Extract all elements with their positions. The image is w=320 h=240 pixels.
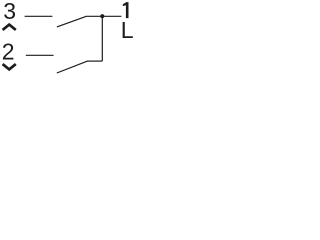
wire common bottom [87, 60, 102, 62]
wire common top to terminal 1 [86, 15, 122, 17]
wire terminal 3 [25, 15, 53, 17]
svg-text:3: 3 [3, 0, 16, 24]
svg-text:2: 2 [2, 38, 15, 64]
wire common vertical [101, 16, 103, 61]
junction node [100, 14, 104, 18]
rocker arrow down (terminal 2) [3, 64, 16, 69]
switch blade S1 top [57, 16, 86, 27]
terminal label 1 [123, 2, 129, 18]
svg-text:L: L [121, 17, 134, 43]
wire terminal 2 [26, 54, 54, 56]
rocker arrow up (terminal 3) [3, 25, 16, 30]
switch blade S2 bottom [57, 61, 87, 73]
